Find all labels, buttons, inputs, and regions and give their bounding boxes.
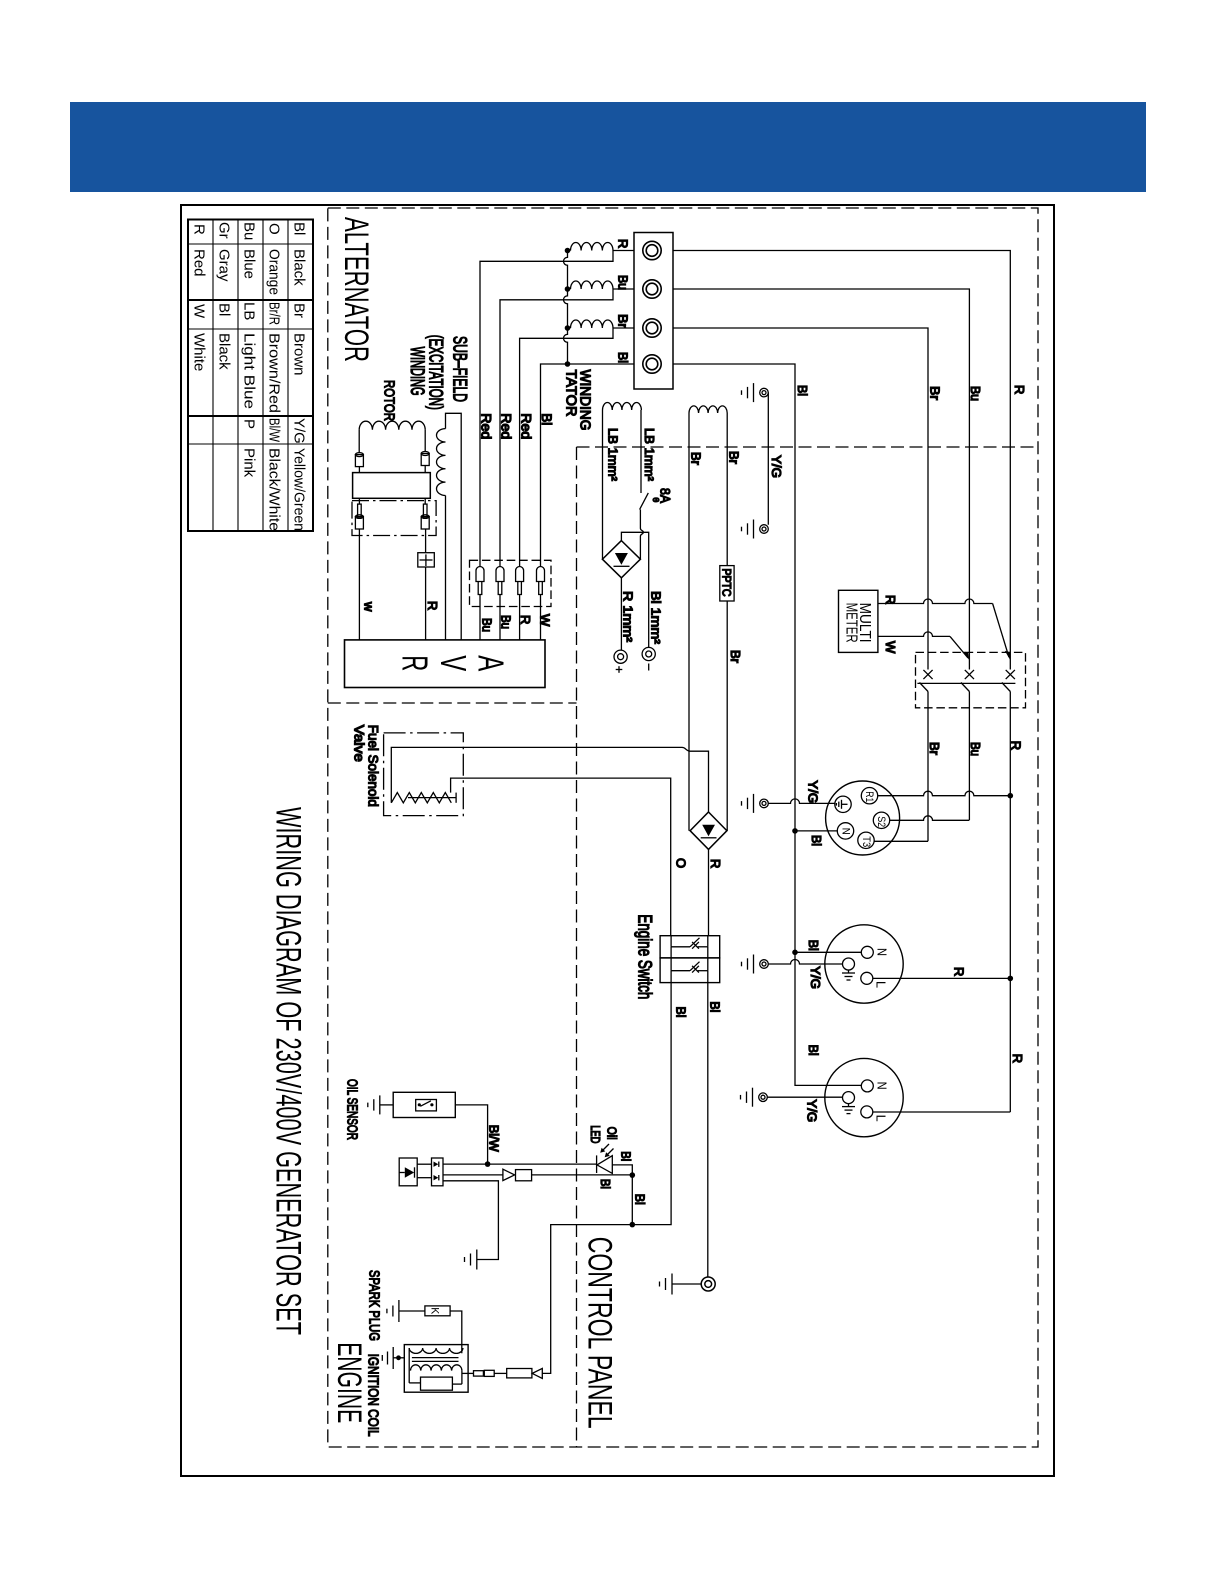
junction node	[565, 248, 571, 254]
svg-text:Br: Br	[728, 650, 743, 664]
svg-text:Bl: Bl	[707, 1001, 722, 1012]
wire S2 to Bu bus	[890, 816, 970, 820]
outer border frame	[181, 205, 1054, 1476]
svg-text:Gray: Gray	[216, 249, 233, 282]
svg-text:Br: Br	[727, 451, 742, 465]
sub-field excitation winding	[446, 413, 462, 640]
dashed divider: alternator / control panel	[577, 446, 1039, 448]
fuel solenoid valve dash-dot box	[384, 733, 464, 816]
svg-text:Bl/W: Bl/W	[486, 1125, 501, 1153]
connector plug dashed box	[470, 560, 552, 606]
stator winding coils (3 phase)	[568, 250, 571, 252]
svg-text:Gr: Gr	[216, 222, 233, 239]
svg-text:Bl/W: Bl/W	[266, 418, 283, 443]
pin earth	[843, 958, 855, 970]
connector pin	[516, 567, 524, 582]
svg-text:Red: Red	[191, 249, 208, 277]
svg-text:A: A	[471, 655, 512, 671]
svg-text:Valve: Valve	[352, 725, 368, 762]
svg-text:Bl 1mm²: Bl 1mm²	[649, 591, 664, 645]
oil level sensor box	[393, 1092, 455, 1117]
pin L	[861, 972, 873, 984]
svg-text:Br: Br	[291, 303, 308, 318]
connector pin	[476, 567, 484, 582]
svg-text:R: R	[395, 655, 436, 671]
svg-text:W: W	[191, 304, 208, 319]
wire plug to coil secondary	[450, 1311, 462, 1353]
output terminal block	[634, 233, 673, 390]
svg-text:LB: LB	[241, 302, 258, 320]
ground: oil sensor	[380, 1104, 393, 1106]
svg-text:Br: Br	[928, 386, 943, 401]
svg-text:Bl: Bl	[616, 352, 631, 363]
svg-text:R: R	[1008, 741, 1023, 750]
svg-text:R: R	[616, 239, 631, 248]
brush lead R with connector	[425, 529, 427, 553]
svg-text:SPARK PLUG: SPARK PLUG	[366, 1270, 383, 1341]
svg-text:P: P	[241, 419, 258, 429]
svg-text:Brown/Red: Brown/Red	[266, 333, 283, 413]
wire Bl to ground stud	[707, 983, 709, 1277]
svg-text:R: R	[952, 967, 967, 976]
rotor coil end wires	[358, 430, 360, 453]
meter lead W	[878, 632, 950, 637]
svg-text:R: R	[1010, 1054, 1025, 1063]
ground: socket A earth	[753, 963, 755, 965]
coil return wires (Red leads)	[480, 251, 613, 568]
svg-text:R: R	[1012, 385, 1027, 394]
svg-text:L: L	[874, 981, 889, 988]
svg-text:L: L	[874, 1115, 889, 1122]
pin earth	[843, 1092, 855, 1104]
pin R1	[861, 788, 877, 804]
junction node	[565, 286, 571, 292]
wire Bl/W	[455, 1105, 487, 1164]
terminal lug	[643, 319, 661, 337]
svg-text:R1: R1	[863, 791, 875, 802]
lighting winding coil	[689, 406, 727, 413]
svg-text:White: White	[191, 333, 208, 371]
svg-text:Y/G: Y/G	[808, 966, 823, 989]
wire LB left	[602, 410, 604, 559]
oil alert unit box	[399, 1158, 417, 1186]
pin N	[861, 1080, 873, 1092]
blue header bar	[70, 102, 1146, 192]
svg-text:W: W	[883, 641, 898, 654]
LED arrows	[602, 1144, 610, 1152]
ignition coil box	[404, 1345, 468, 1393]
ground: control panel frame	[753, 528, 755, 530]
junction node	[565, 361, 571, 367]
svg-text:Bl: Bl	[806, 1045, 821, 1056]
svg-text:Bl: Bl	[539, 413, 554, 425]
breaker pole	[1006, 670, 1015, 679]
svg-text:IGNITION COIL: IGNITION COIL	[365, 1354, 382, 1437]
stator common chain wire with hops	[564, 251, 568, 365]
svg-text:Black: Black	[291, 249, 308, 286]
terminal +	[614, 650, 627, 663]
bridge rectifier BR1	[602, 541, 640, 578]
svg-text:LB 1mm²: LB 1mm²	[606, 428, 621, 482]
svg-text:Bu: Bu	[968, 386, 983, 401]
terminal lug	[643, 355, 661, 373]
svg-text:N: N	[875, 948, 890, 956]
PPTC protector	[720, 566, 734, 601]
breaker pole	[923, 670, 932, 679]
terminal lug	[643, 241, 661, 259]
diode D1	[399, 1172, 405, 1174]
svg-text:Blue: Blue	[241, 249, 258, 279]
wire: solenoid return	[451, 778, 671, 936]
svg-text:Bl: Bl	[795, 385, 810, 396]
svg-text:Br: Br	[616, 314, 631, 329]
svg-text:Y/G: Y/G	[291, 418, 308, 444]
svg-text:ALTERNATOR: ALTERNATOR	[337, 217, 375, 362]
svg-text:Bu: Bu	[616, 275, 631, 290]
core	[412, 1357, 459, 1359]
svg-text:R: R	[708, 859, 723, 868]
pin earth symbol	[848, 1104, 850, 1107]
slip ring housing box	[353, 473, 431, 499]
pin N	[837, 823, 853, 839]
svg-text:R 1mm²: R 1mm²	[621, 591, 636, 643]
LED diode	[596, 1155, 598, 1173]
connector pin	[537, 567, 545, 582]
svg-text:Bl: Bl	[806, 940, 821, 951]
svg-text:ROTOR: ROTOR	[381, 380, 398, 421]
svg-text:Y/G: Y/G	[806, 780, 821, 803]
plus-box connector	[418, 553, 435, 567]
svg-text:Light Blue: Light Blue	[241, 333, 258, 409]
svg-text:Bu: Bu	[499, 615, 514, 629]
svg-text:R: R	[425, 601, 440, 610]
switch output wires Bl	[670, 971, 672, 983]
pin S2	[873, 812, 889, 828]
wire Y/G to socket earth pin	[768, 799, 835, 804]
svg-text:Bl: Bl	[216, 303, 233, 316]
ground: 5-pin socket earth	[753, 802, 755, 804]
primary winding	[411, 1365, 462, 1371]
svg-text:N: N	[875, 1082, 890, 1090]
dashed divider: control panel / engine	[576, 447, 578, 1447]
engine switch box	[660, 936, 720, 958]
wire Br right through PPTC	[726, 413, 728, 566]
wire to oil LED	[443, 1163, 597, 1165]
wire LB right to breaker	[640, 410, 642, 493]
svg-text:Bl: Bl	[633, 1194, 648, 1205]
connector pin	[496, 567, 504, 582]
socket 230V B	[825, 1058, 903, 1136]
socket 230V A	[825, 925, 903, 1003]
wire plug to ground	[399, 1310, 425, 1312]
solenoid coil (zigzag)	[391, 793, 451, 803]
svg-text:Br: Br	[689, 452, 704, 466]
svg-text:WINDING: WINDING	[406, 347, 427, 396]
svg-text:Black: Black	[216, 333, 233, 370]
svg-text:Bu: Bu	[241, 222, 258, 240]
wire to ground	[443, 1181, 498, 1260]
dashed divider: alternator / engine	[328, 702, 577, 704]
svg-text:WINDING: WINDING	[577, 370, 594, 431]
brushes	[358, 504, 362, 517]
breaker trip bar	[917, 682, 1015, 684]
dashed boundary: overall sections box	[328, 208, 1038, 1447]
svg-text:Bl: Bl	[598, 1179, 613, 1189]
bridge rectifier BR2	[690, 812, 727, 849]
wire socket B L to R bus	[873, 1111, 1011, 1113]
svg-text:Red: Red	[479, 413, 494, 439]
svg-text:SUB–FIELD: SUB–FIELD	[449, 336, 470, 402]
svg-text:Bu: Bu	[479, 618, 494, 632]
wire Y/G bonding	[767, 393, 769, 525]
svg-text:Engine Switch: Engine Switch	[634, 914, 655, 999]
svg-text:METER: METER	[843, 603, 860, 643]
svg-text:Bl: Bl	[809, 835, 824, 846]
wire T3 to Br bus	[874, 840, 928, 842]
secondary winding	[409, 1348, 463, 1353]
condenser box	[421, 1377, 453, 1390]
svg-text:w: w	[362, 601, 377, 612]
MULTI METER	[839, 590, 878, 652]
svg-text:Oil: Oil	[604, 1127, 619, 1140]
spark plug resistor box	[425, 1306, 450, 1316]
svg-text:R: R	[883, 595, 898, 604]
regulator AVR	[345, 640, 546, 688]
wire Y/G to socket A earth	[768, 960, 842, 965]
svg-text:WIRING DIAGRAM OF 230V/400V GE: WIRING DIAGRAM OF 230V/400V GENERATOR SE…	[269, 807, 308, 1335]
circuit breaker 3-pole dashed box	[916, 652, 1026, 707]
AVR harness wires	[479, 566, 481, 568]
pin earth symbol	[848, 970, 850, 973]
bus wires below breaker	[927, 692, 929, 842]
svg-text:K: K	[429, 1307, 441, 1315]
slip ring pins	[355, 455, 363, 467]
svg-text:Yellow/Green: Yellow/Green	[291, 448, 308, 531]
pin gnd symbol	[842, 803, 848, 805]
svg-text:OIL SENSOR: OIL SENSOR	[343, 1079, 360, 1140]
wire socket A L to R bus	[873, 977, 1011, 979]
pin L	[861, 1106, 873, 1118]
svg-text:Y/G: Y/G	[769, 455, 784, 478]
svg-text:PPTC: PPTC	[720, 569, 732, 597]
wire Y/G to socket B earth	[767, 1096, 842, 1098]
socket 400V 5-pin	[826, 781, 900, 855]
wires coils to terminals	[613, 250, 634, 252]
brush lead w	[358, 529, 360, 640]
wire R1 to R bus	[878, 791, 1011, 796]
svg-text:Brown: Brown	[291, 333, 308, 376]
wire with buzzer	[443, 1174, 503, 1176]
ground: alternator frame	[753, 392, 755, 394]
wire: solenoid to rectifier (top)	[391, 747, 708, 812]
neutral Bl wire	[541, 364, 635, 567]
svg-text:Orange: Orange	[266, 249, 283, 295]
wire Br left	[688, 413, 690, 831]
brush holder dash-dot box	[352, 501, 436, 536]
svg-text:R: R	[191, 224, 208, 235]
wire Bl to control circuit	[542, 983, 671, 1374]
terminal lug	[643, 280, 661, 298]
svg-text:LB 1mm²: LB 1mm²	[642, 428, 657, 482]
svg-text:T3: T3	[860, 836, 872, 847]
rotor winding coil	[359, 421, 425, 430]
terminal -	[642, 647, 655, 660]
svg-text:R: R	[518, 615, 533, 624]
connector block	[432, 1158, 444, 1186]
wire color legend table	[188, 220, 313, 532]
svg-text:Pink: Pink	[241, 448, 258, 478]
svg-text:Br/R: Br/R	[266, 302, 283, 325]
svg-text:S2: S2	[875, 816, 887, 827]
svg-text:Y/G: Y/G	[805, 1099, 820, 1122]
svg-text:Bl: Bl	[291, 222, 308, 235]
switch pole 1	[670, 936, 672, 947]
wire Bl to socket N	[792, 828, 798, 834]
grounding stud	[701, 1277, 715, 1291]
svg-text:Bl: Bl	[619, 1151, 634, 1161]
ground: oil alert unit	[476, 1250, 478, 1270]
wire coil ground	[399, 1357, 405, 1359]
svg-text:W: W	[537, 614, 552, 627]
charging winding coil	[603, 403, 642, 411]
svg-text:Br: Br	[927, 742, 942, 756]
pin T3	[858, 832, 874, 848]
svg-text:Bu: Bu	[968, 742, 983, 756]
svg-text:Red: Red	[499, 413, 514, 439]
svg-text:O: O	[266, 223, 283, 235]
svg-text:Bl: Bl	[673, 1007, 688, 1018]
thermal breaker 8A	[640, 493, 649, 510]
switch pole 2	[670, 947, 672, 971]
wire Bl to socket A N	[792, 950, 798, 956]
breaker pole	[965, 670, 974, 679]
svg-text:V: V	[433, 655, 474, 671]
pin N	[861, 946, 873, 958]
wire R from bridge to engine switch	[708, 849, 710, 935]
svg-text:N: N	[839, 828, 851, 835]
pin gnd	[835, 796, 851, 812]
svg-text:Black/White: Black/White	[266, 448, 283, 531]
svg-text:LED: LED	[588, 1125, 603, 1143]
coil HT output lead	[462, 1372, 474, 1374]
ground: socket B earth	[752, 1096, 754, 1098]
svg-text:θ: θ	[651, 498, 661, 503]
svg-text:ENGINE: ENGINE	[330, 1342, 368, 1423]
phase bus wires R Bu Br Bl	[673, 251, 1010, 670]
bridge output jog wire	[621, 532, 648, 647]
svg-text:O: O	[673, 858, 688, 868]
svg-text:Red: Red	[518, 413, 533, 439]
svg-text:CONTROL PANEL: CONTROL PANEL	[581, 1237, 619, 1429]
junction node	[565, 325, 571, 331]
wire R 1mm2 to + terminal	[620, 578, 622, 650]
meter lead R	[878, 599, 993, 604]
